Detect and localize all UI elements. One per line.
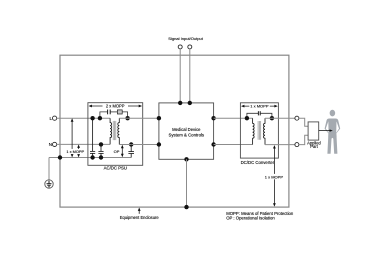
- capacitor bypass plates: [107, 110, 109, 115]
- wire MD to DCDC top: [214, 117, 253, 119]
- transformer T1 secondary: [118, 118, 120, 144]
- svg-text:OP: OP: [114, 149, 120, 154]
- svg-text:DC/DC Converter: DC/DC Converter: [241, 160, 275, 165]
- wire MD earth to enclosure: [186, 159, 188, 207]
- wire N rail: [57, 143, 110, 145]
- junction dots PSU: [90, 116, 94, 120]
- Applied Part box: [308, 122, 319, 140]
- notch right arm: [336, 121, 339, 132]
- wire secondary bottom rail: [119, 144, 159, 146]
- wire patient bottom to AP box: [299, 135, 308, 144]
- wire patient top to AP box: [299, 118, 308, 126]
- svg-text:Part: Part: [310, 144, 318, 149]
- arrow 1 x MOPP (secondary to enclosure): [273, 147, 275, 205]
- wire PE drop to ground: [48, 158, 50, 180]
- equipment enclosure box: [60, 55, 289, 207]
- svg-text:1 x MOPP: 1 x MOPP: [66, 149, 84, 154]
- Equipment Enclosure pointer: [138, 210, 140, 214]
- terminal signal 2: [188, 45, 192, 49]
- svg-text:Medical Device: Medical Device: [172, 127, 201, 132]
- component box in bypass: [117, 110, 122, 114]
- transformer T2 core: [258, 121, 261, 140]
- wire secondary top rail: [119, 117, 159, 119]
- label 1 x MOPP (left): [66, 149, 85, 154]
- junction PE x enclosure: [58, 155, 62, 159]
- svg-text:Equipment Enclosure: Equipment Enclosure: [120, 215, 160, 220]
- wire L rail: [57, 117, 110, 119]
- patient figure: [325, 110, 341, 154]
- capacitor Y3 secondary-PE: [128, 145, 134, 158]
- transformer T2 primary: [253, 118, 255, 144]
- wire MD to DCDC bottom: [214, 144, 253, 146]
- junction dots MD box: [157, 116, 161, 120]
- wire DCDC to patient bottom: [265, 144, 295, 146]
- junction dot enclosure bottom: [184, 205, 188, 209]
- terminal patient 2: [295, 143, 299, 147]
- terminal signal 1: [178, 45, 182, 49]
- bypass capacitor branch DC/DC: [247, 113, 272, 118]
- svg-text:N: N: [49, 142, 52, 147]
- capacitor Y2 N-PE: [98, 144, 103, 157]
- DC/DC Converter box: [240, 103, 278, 158]
- arrow 1 x MOPP (DC/DC top): [243, 105, 277, 107]
- wire DCDC to patient top: [265, 117, 295, 119]
- junction dots DC/DC: [245, 116, 249, 120]
- wire signal 1: [179, 49, 181, 103]
- svg-text:1 x MOPP: 1 x MOPP: [265, 174, 284, 179]
- bypass branch wires (cap + component across barrier): [100, 112, 128, 118]
- svg-text:System & Controls: System & Controls: [169, 132, 205, 137]
- wire signal 2: [189, 49, 191, 103]
- transformer T2 secondary: [264, 118, 266, 144]
- svg-text:2 x MOPP: 2 x MOPP: [106, 104, 125, 109]
- transformer T1 primary: [110, 118, 112, 144]
- arrow N to PE (1 x MOPP short): [78, 147, 80, 155]
- svg-text:Signal Input/Output: Signal Input/Output: [168, 36, 204, 41]
- AC/DC PSU box: [88, 103, 143, 166]
- wire PE rail: [49, 157, 131, 159]
- notch left arm: [326, 121, 329, 132]
- arrow AP to patient: [319, 130, 330, 132]
- terminal patient 1: [295, 116, 299, 120]
- svg-text:AC/DC PSU: AC/DC PSU: [104, 166, 127, 171]
- transformer T1 core: [113, 121, 116, 140]
- svg-text:OP : Operational Isolation: OP : Operational Isolation: [226, 215, 275, 220]
- Medical Device box: [159, 103, 214, 159]
- ground earth symbol: [45, 180, 53, 188]
- svg-text:1 x MOPP: 1 x MOPP: [250, 104, 269, 109]
- arrow L to PE (1 x MOPP long): [71, 121, 73, 155]
- capacitor Y1 L-PE: [90, 118, 95, 157]
- arrow 2 x MOPP: [90, 105, 141, 107]
